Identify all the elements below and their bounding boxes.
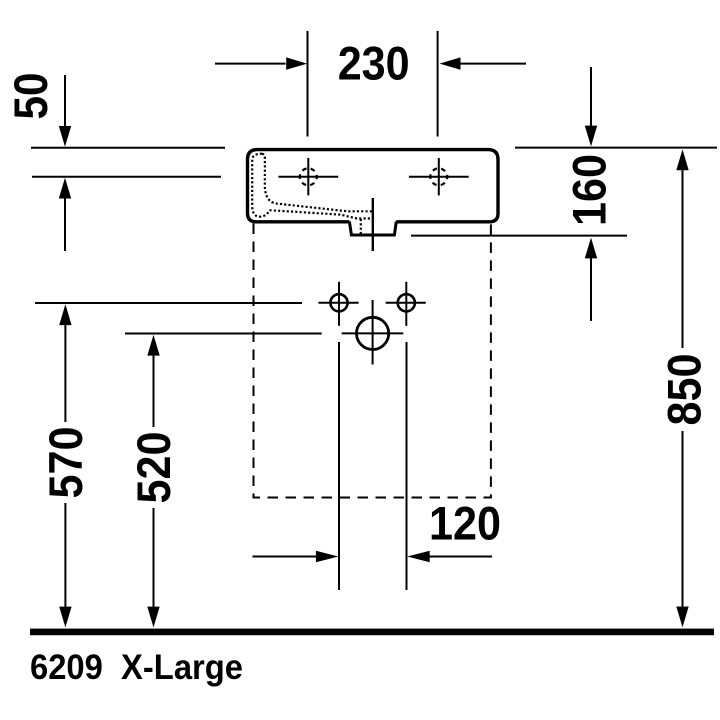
dim arrow 570 bottom (points down) [59,503,71,627]
520 reference line [125,333,322,335]
svg-text:520: 520 [128,432,181,504]
pedestal dashed outline [254,224,491,498]
570 reference line [35,302,302,304]
mounting hole left circle [330,294,347,311]
dim arrow 50 lower (points up) [59,178,71,251]
basin outline [248,150,499,222]
dim arrow 520 bottom (points down) [147,508,159,627]
drain centerline [372,198,374,251]
svg-text:570: 570 [40,427,93,499]
dim arrow 570 top (points up) [59,304,71,422]
mounting hole right circle [398,294,415,311]
extension line 230 right [437,31,439,137]
drain hole circle [357,317,389,349]
extension line 120 left [338,342,340,590]
dim arrow 120 right (points left) [407,551,492,562]
svg-text:230: 230 [338,38,410,91]
dim arrow 160 lower (points up) [585,238,597,321]
mounting hole left crosshair [318,282,358,326]
dim arrow 230 left (points right) [215,57,307,69]
dim arrow 230 right (points left) [440,57,527,69]
svg-text:850: 850 [659,354,712,426]
faucet hole right dashed circle [430,168,447,185]
overflow duct outer dotted profile [252,154,373,219]
160 upper reference line [515,147,717,149]
shelf bottom line [32,176,221,178]
drain outlet [349,222,396,236]
floor line [30,629,714,636]
faucet hole left crosshair [278,158,338,195]
dim arrow 850 bottom (points down) [676,431,688,627]
svg-text:50: 50 [5,73,58,120]
160 lower reference line [411,235,627,237]
extension line 120 right [406,342,408,590]
dim arrow 50 upper (points down) [59,75,71,147]
svg-text:120: 120 [429,497,501,550]
svg-text:160: 160 [564,154,617,226]
faucet hole left dashed circle [300,168,317,185]
overflow duct inner dotted profile [262,154,373,212]
svg-text:6209 X-Large: 6209 X-Large [30,648,243,687]
drain hole crosshair [342,300,404,365]
overflow duct drain-drop dotted line [360,219,362,235]
shelf top line [31,147,225,149]
dim arrow 160 upper (points down) [585,67,597,146]
faucet hole right crosshair [409,158,469,195]
dim arrow 120 left (points right) [253,551,339,562]
dim arrow 850 top (points up) [676,149,688,348]
extension line 230 left [307,31,309,137]
mounting hole right crosshair [386,282,426,326]
dim arrow 520 top (points up) [147,335,159,427]
